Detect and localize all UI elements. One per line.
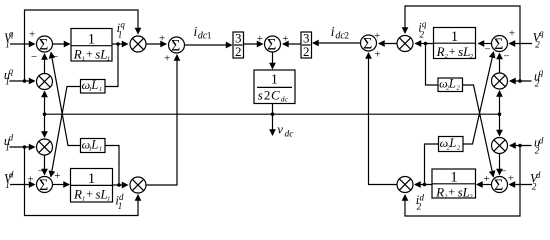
multiplier M1d (u1d x i1d): [130, 177, 146, 193]
svg-text:L: L: [90, 137, 98, 151]
junction dot i1q tap: [116, 42, 120, 46]
node u1q input label: [4, 66, 14, 86]
svg-text:1: 1: [99, 146, 102, 153]
svg-text:R: R: [436, 44, 445, 59]
svg-text:2: 2: [303, 44, 310, 59]
svg-text:1: 1: [450, 169, 458, 185]
wire u1q input: [10, 80, 35, 82]
junction dot u1q: [23, 79, 27, 83]
wire S2q to block B2q: [479, 43, 492, 45]
junction dot vdc right: [498, 112, 502, 116]
svg-text:L: L: [448, 136, 456, 150]
svg-text:q: q: [539, 67, 544, 77]
svg-text:+: +: [159, 32, 165, 44]
node u2d input label: [534, 135, 544, 155]
node i2q label: [418, 19, 427, 39]
svg-text:q: q: [9, 66, 14, 76]
svg-text:d: d: [9, 132, 14, 142]
wire B2d to multiplier M2d: [415, 184, 432, 186]
svg-text:R: R: [435, 184, 444, 199]
node V1d input label: [4, 170, 14, 190]
wire M1ud down into S1d: [44, 156, 46, 175]
multiplier M2q (u2q x i2q): [397, 36, 413, 52]
svg-text:1: 1: [107, 195, 110, 202]
svg-text:+: +: [484, 173, 490, 185]
node V2q input label: [533, 28, 545, 50]
svg-text:q: q: [422, 19, 427, 29]
svg-text:2: 2: [235, 44, 242, 59]
multiplier M1uq (u1q x vdc): [37, 74, 53, 90]
block W2b omega2L2 (d coupling): [439, 136, 464, 152]
summing junction Sc (dc link): [257, 33, 289, 54]
svg-text:1: 1: [207, 32, 212, 42]
svg-text:1: 1: [271, 73, 278, 88]
wire V2d input: [510, 184, 533, 186]
wire M2uq up into S2q: [499, 54, 501, 73]
svg-text:2: 2: [420, 29, 425, 39]
junction dot i2q tap: [424, 42, 428, 46]
summing junction S1d (d-axis side 1): [27, 166, 60, 194]
svg-text:1: 1: [5, 143, 10, 153]
svg-text:2: 2: [535, 145, 540, 155]
svg-text:2: 2: [469, 193, 473, 200]
svg-text:+: +: [86, 47, 93, 61]
node V1q input label: [4, 28, 14, 49]
wire V1q input: [10, 43, 35, 45]
svg-text:2: 2: [535, 78, 540, 88]
svg-text:1: 1: [451, 29, 459, 45]
svg-text:+: +: [508, 173, 514, 185]
wire u2q input: [510, 80, 532, 82]
node V2d input label: [530, 170, 541, 191]
summing junction S2sum (power sum side 2): [361, 30, 381, 61]
svg-text:q: q: [539, 28, 544, 38]
node i1d label: [115, 192, 124, 211]
summing junction S2 (power sum side 1): [159, 32, 185, 64]
svg-text:+: +: [449, 44, 456, 58]
block W1t omega1L1 (q coupling): [81, 78, 106, 93]
summing junction S2q (q-axis side 2): [485, 27, 516, 62]
multiplier M2ud (u2d x vdc): [492, 138, 508, 154]
wire i1q tap down to W1t: [106, 44, 119, 87]
wire i2d tap up to W2b: [425, 144, 439, 185]
svg-text:dc: dc: [285, 129, 295, 139]
wire W1b output diagonal to S1: [51, 53, 81, 146]
svg-text:2: 2: [344, 32, 349, 42]
svg-text:L: L: [90, 78, 98, 92]
svg-text:Σ: Σ: [39, 177, 48, 194]
svg-text:2: 2: [532, 181, 537, 191]
svg-text:1: 1: [107, 55, 110, 62]
wire V1d input: [10, 184, 35, 186]
junction dot vdc left: [43, 112, 47, 116]
block CAP transfer function 1/(s2Cdc): [254, 70, 295, 104]
svg-text:1: 1: [118, 201, 123, 211]
svg-text:d: d: [9, 170, 14, 180]
wire CAP output down to vdc node: [272, 104, 274, 115]
wire W2b output diagonal to S2q: [463, 52, 494, 144]
svg-text:2: 2: [264, 87, 271, 102]
wire S1 to block B1: [53, 43, 70, 45]
wire F32L to center summer Sc: [244, 43, 263, 45]
wire u1d input: [10, 146, 35, 148]
svg-text:+: +: [54, 170, 60, 182]
svg-text:+: +: [27, 173, 33, 185]
svg-text:2: 2: [417, 201, 422, 211]
svg-text:d: d: [539, 135, 544, 145]
svg-text:L: L: [448, 76, 456, 90]
svg-text:Σ: Σ: [39, 37, 48, 54]
wire vdc down into M2ud: [499, 114, 501, 135]
wire M2q to summer S2sum: [379, 43, 397, 45]
svg-text:1: 1: [82, 55, 85, 62]
wire i2q tap down to W2t: [426, 44, 438, 86]
wire M2ud down into S2d: [499, 154, 501, 175]
wire F32R to center summer Sc: [283, 43, 301, 45]
svg-text:1: 1: [5, 39, 10, 49]
wire u1d bottom line into M1d: [25, 147, 139, 216]
block W1b omega1L1 (d coupling): [81, 137, 106, 152]
wire S1d to block B1d: [53, 184, 69, 186]
multiplier M2d (u2d x i2d): [397, 177, 413, 193]
svg-text:+: +: [282, 33, 288, 45]
svg-text:s: s: [258, 87, 263, 102]
wire vdc output arrow: [272, 114, 274, 135]
svg-text:+: +: [29, 28, 35, 40]
junction dot i1d tap: [117, 183, 121, 187]
svg-text:Σ: Σ: [267, 37, 276, 54]
svg-text:−: −: [31, 51, 37, 63]
wire Sc down to capacitor block: [272, 53, 274, 69]
svg-text:−: −: [503, 51, 509, 63]
wire i1d tap up to W1b: [106, 146, 120, 186]
wire V2q input: [510, 43, 533, 45]
svg-text:1: 1: [118, 29, 123, 39]
svg-text:+: +: [164, 53, 170, 65]
node u2q input label: [534, 67, 544, 88]
node idc1 label: [194, 24, 212, 42]
svg-text:i: i: [331, 24, 335, 39]
svg-text:1: 1: [5, 180, 10, 190]
block B1 transfer function 1/(R1+sL1): [71, 29, 112, 63]
svg-text:Σ: Σ: [494, 177, 503, 194]
svg-text:i: i: [194, 24, 198, 39]
svg-text:1: 1: [5, 77, 10, 87]
junction dot u1d: [23, 145, 27, 149]
wire B1 to multiplier M1q with tap junction: [112, 43, 128, 45]
wire vdc up into M2uq: [499, 91, 501, 114]
multiplier M1q (u1q x i1q): [130, 36, 146, 52]
svg-text:C: C: [271, 87, 280, 102]
wire M1d right and up into S2: [147, 55, 178, 185]
svg-text:+: +: [448, 185, 455, 199]
svg-text:Σ: Σ: [494, 36, 503, 53]
svg-text:Σ: Σ: [363, 36, 372, 53]
junction dot vdc center: [271, 112, 275, 116]
svg-text:+: +: [374, 30, 380, 42]
wire M1uq up into S1: [44, 54, 46, 73]
wire vdc distribution line: [45, 113, 500, 115]
svg-text:1: 1: [99, 86, 102, 93]
block F32R gain 3/2: [301, 30, 312, 59]
svg-text:+: +: [257, 33, 263, 45]
svg-text:R: R: [73, 186, 82, 201]
svg-text:v: v: [277, 121, 283, 136]
wire W2t output diagonal to S2d: [463, 85, 494, 177]
svg-text:Σ: Σ: [171, 38, 180, 55]
wire M1q to summer S2: [147, 43, 167, 45]
junction dot i2d tap: [423, 183, 427, 187]
svg-text:dc: dc: [281, 95, 289, 104]
block F32L gain 3/2: [233, 30, 244, 59]
wire vdc up into M1uq: [44, 92, 46, 115]
wire S2sum to gain block F32R: [313, 42, 360, 44]
junction dot u2q: [518, 79, 522, 83]
node idc2 label: [331, 24, 350, 42]
multiplier M1ud (u1d x vdc): [37, 139, 53, 155]
svg-text:d: d: [536, 170, 541, 180]
svg-text:2: 2: [457, 144, 461, 151]
summing junction S2d (d-axis side 2): [484, 166, 515, 194]
svg-text:R: R: [73, 46, 82, 61]
node vdc label: [277, 121, 294, 139]
summing junction S1 (q-axis side 1): [29, 28, 58, 63]
svg-text:−: −: [485, 44, 491, 56]
svg-text:+: +: [375, 49, 381, 61]
wire u2q feedback top line into M2q: [405, 6, 520, 81]
wire u2d input: [510, 145, 532, 147]
node u1d input label: [4, 132, 14, 152]
multiplier M2uq (u2q x vdc): [492, 73, 508, 89]
wire B2q to multiplier M2q: [416, 43, 434, 45]
block W2t omega2L2 (q coupling): [438, 76, 463, 91]
node i1q label: [117, 19, 126, 39]
svg-text:1: 1: [88, 171, 96, 187]
wire u1q feedback top line into M1q: [25, 10, 139, 81]
block B2d transfer function 1/(R2+sL2): [432, 169, 476, 200]
svg-text:q: q: [120, 19, 125, 29]
block B2q transfer function 1/(R2+sL2): [434, 28, 476, 60]
junction dot u2d: [518, 144, 522, 148]
svg-text:1: 1: [82, 195, 85, 202]
wire u2d bottom line into M2d: [405, 146, 520, 217]
block B1d transfer function 1/(R1+sL1): [71, 169, 113, 203]
svg-text:2: 2: [457, 85, 461, 92]
wire W1t output diagonal to S1d: [51, 87, 81, 177]
svg-text:−: −: [500, 166, 506, 178]
svg-text:+: +: [86, 187, 93, 201]
wire S2d to block B2d: [477, 184, 491, 186]
svg-text:1: 1: [88, 31, 96, 47]
svg-text:−: −: [38, 166, 44, 178]
svg-text:2: 2: [535, 40, 540, 50]
wire vdc down into M1ud: [44, 114, 46, 137]
node i2d label: [416, 192, 425, 211]
wire M2d left and up into S2sum: [369, 53, 397, 185]
wire B1d to multiplier M1d: [113, 184, 128, 186]
wire S2 to gain block F32L: [185, 44, 232, 46]
svg-text:+: +: [509, 27, 515, 39]
svg-text:q: q: [9, 28, 14, 38]
